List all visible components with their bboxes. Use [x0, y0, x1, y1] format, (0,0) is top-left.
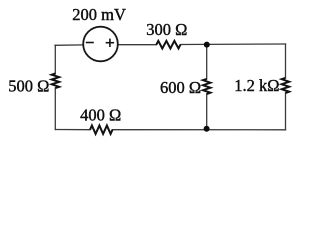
svg-text:300 Ω: 300 Ω: [146, 20, 187, 39]
svg-text:200 mV: 200 mV: [72, 5, 126, 24]
svg-text:400 Ω: 400 Ω: [80, 105, 121, 124]
svg-text:1.2 kΩ: 1.2 kΩ: [234, 76, 279, 95]
svg-text:500 Ω: 500 Ω: [8, 77, 49, 96]
svg-text:600 Ω: 600 Ω: [160, 78, 201, 97]
